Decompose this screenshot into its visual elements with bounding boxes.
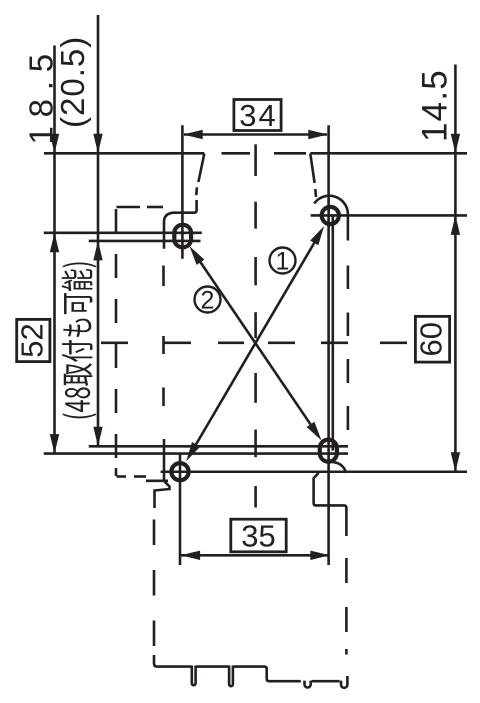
wire: 52 arrow up [50, 233, 59, 253]
wire: alt-position dashed bottom edge y=476.5 [117, 475, 127, 478]
svg-text:1: 1 [276, 248, 290, 276]
node: text (20.5) rotated [54, 36, 91, 128]
wire: diagonal 1 lower-left to upper-right with arrows [191, 234, 320, 454]
wire: right lower body dashed edge x=346.4 [345, 558, 348, 583]
wire: lower-left hole center line y=471.75 (60-dim bottom) [161, 470, 467, 473]
svg-text:34: 34 [239, 98, 277, 133]
svg-text:14.5: 14.5 [416, 69, 455, 142]
wire: alt-position dashed top edge y=207 [117, 206, 141, 209]
wire: bottom edge segment [196, 665, 229, 668]
wire: left top slant edge [198, 154, 204, 182]
component: pin 2 [229, 666, 233, 687]
wire: extension line through right holes x=328.6 [327, 125, 330, 565]
node: 35 value box [231, 519, 286, 552]
node: text 18.5 rotated [22, 45, 59, 144]
wire: dimension line (20.5)/48 vertical x=98 [97, 15, 100, 447]
wire: bottom lower edge segment [312, 680, 340, 683]
wire: right slant hidden dash [314, 189, 317, 197]
wire: left body edge dashed x=163.5 [162, 266, 165, 287]
wire: right body edge dashed x=347.9 [347, 266, 350, 290]
wire: vertical centerline x=255.6 dashed [254, 144, 257, 176]
wire: dimension line 18.5/52 vertical x=54.5 [53, 46, 56, 455]
wire: extension line through left slot x=182.4 [181, 125, 184, 258]
wire: 48 arrow down [93, 427, 102, 447]
svg-text:52: 52 [15, 323, 50, 357]
svg-text:35: 35 [241, 519, 275, 554]
wire: 60 arrow up [451, 215, 460, 235]
wire: 52 arrow down [50, 434, 59, 454]
svg-text:60: 60 [414, 322, 449, 356]
wire: right top slant edge [310, 154, 314, 183]
node: 60 value box rotated [415, 316, 449, 362]
component: pin 1 [192, 666, 196, 686]
wire: bottom-left corner and bottom edge with pins [154, 655, 191, 667]
wire: 14.5 arrow down [451, 134, 460, 154]
wire: 34 dimension line y=134.5 [184, 133, 327, 136]
wire: slot option line L4 y=446.3 (48-dim bottom) [89, 445, 348, 448]
wire: slot option line L1 y=232.8 (52-dim top) [44, 232, 202, 235]
hole: upper-right round hole (bold ring) [322, 207, 339, 224]
node: text (48 mounting possible) rotated CJK [62, 262, 97, 418]
wire: (20.5) arrow down [93, 134, 102, 154]
wire: panel top edge solid left segment y=153.3 [44, 152, 204, 155]
wire: 18.5 arrow down [50, 134, 59, 154]
wire: left lower body dashed edge x=154 [153, 520, 156, 546]
svg-text:(20.5): (20.5) [54, 36, 91, 128]
wire: bottom edge segment to step [234, 667, 301, 682]
component: small cup notch 1 [305, 681, 311, 688]
wire: upper-left boss outline [164, 200, 197, 249]
wire: left step horizontal y=480.8 [146, 479, 168, 482]
wire: slot option line L2 y=240.9 (48-dim top) [89, 240, 201, 243]
wire: 35 dimension line y=555.3 [181, 554, 330, 557]
wire: 48 arrow up [93, 241, 102, 261]
component: small cup notch 2 with riser [341, 676, 347, 688]
wire: alt-position dashed left edge x=116 [115, 209, 118, 233]
hole: lower-left round hole (bold ring) [171, 463, 188, 480]
wire: panel top edge hidden dashes center [222, 152, 251, 155]
wire: left slant hidden dash [195, 187, 198, 195]
wire: left body edge solid lower x=164 [163, 439, 166, 481]
svg-text:2: 2 [201, 287, 215, 315]
node: text 14.5 rotated [416, 69, 455, 142]
wire: horizontal centerline y=342.8 dashed [101, 341, 128, 344]
wire: upper-right hole center line y=215.4 (60-dim top) [311, 214, 467, 217]
wire: dimension line 14.5/60 vertical x=455.4 [454, 65, 457, 472]
wire: upper-right boss arc [314, 196, 348, 241]
node: 52 value box rotated [17, 319, 50, 361]
hole: upper-left slot (bold obround) [174, 225, 191, 248]
wire: diagonal 2 upper-left to lower-right with arrows [195, 253, 317, 433]
wire: body right edge between holes x=332.8 [331, 216, 334, 451]
wire: 60 arrow down [451, 452, 460, 472]
node: 34 value box [234, 100, 281, 131]
wire: lower-right boss arc [332, 462, 346, 473]
wire: left step outline near lower-left hole [155, 481, 170, 508]
wire: right lower body edge: chamfer and step [314, 473, 347, 536]
node: circled label 2 [195, 287, 221, 313]
wire: extension line through lower-left hole x=180 [179, 453, 182, 566]
wire: slot option line L3 y=453.6 (52-dim bottom) [44, 452, 348, 455]
node: circled label 1 [270, 248, 296, 274]
wire: panel top edge solid right segment [310, 152, 467, 155]
hole: lower-right slot (bold obround) [320, 440, 337, 462]
